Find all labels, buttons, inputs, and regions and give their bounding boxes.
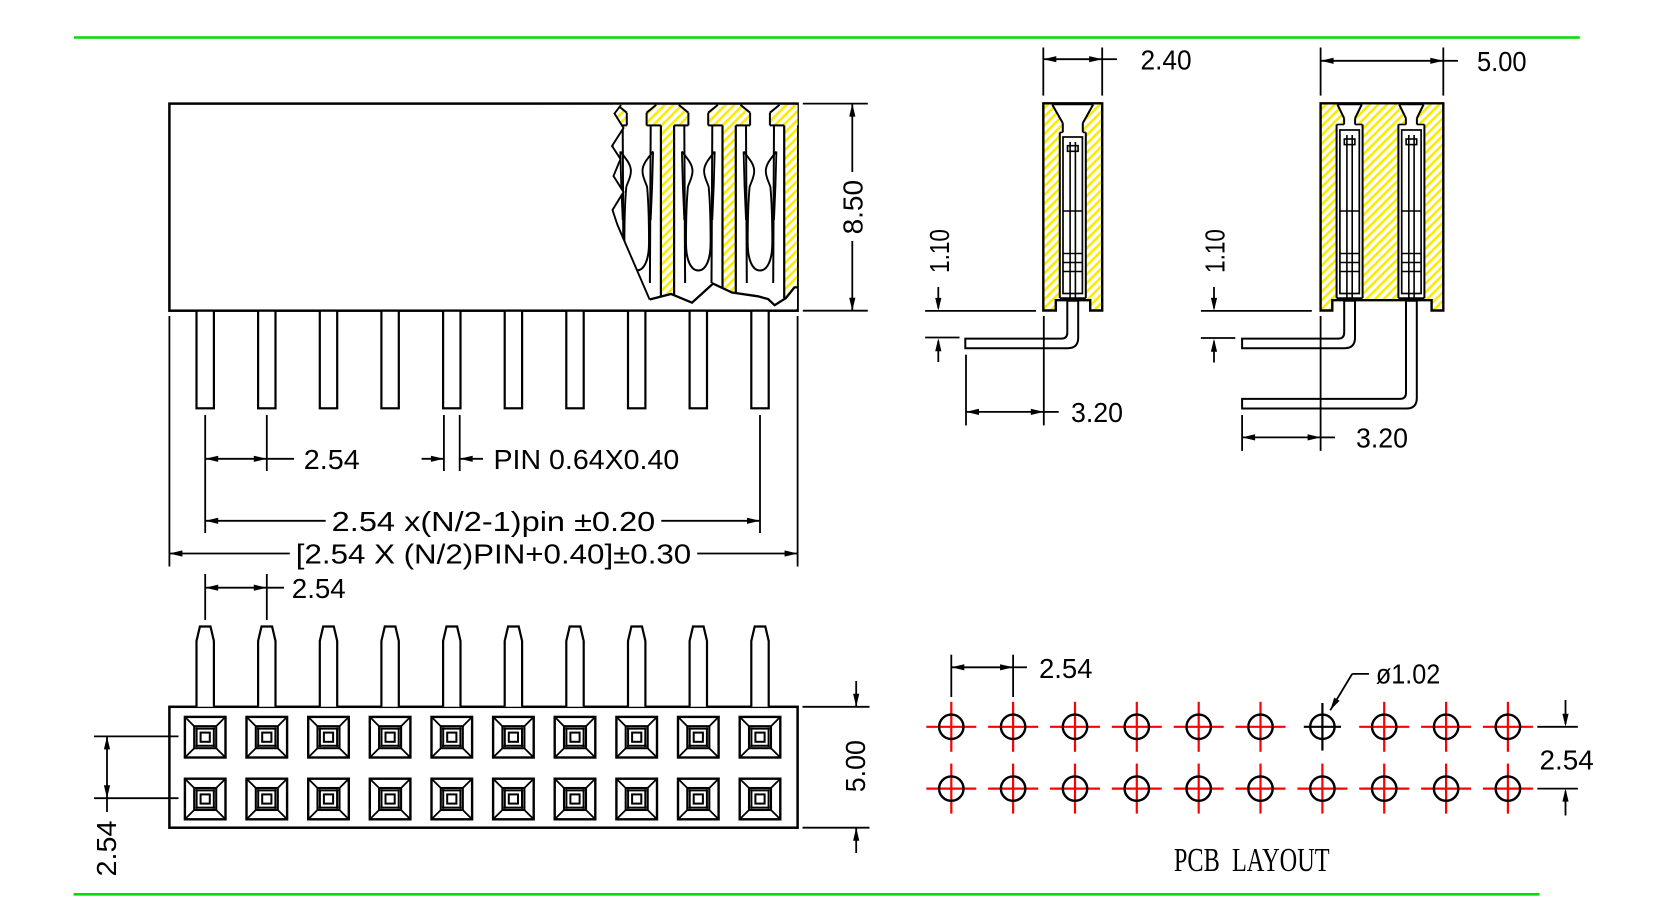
top view: socket hole row 1 col 3 [308, 717, 349, 758]
PCB layout: hole row 1 col 10 [1483, 702, 1533, 752]
side view B: right-angle pin row 1 [1242, 135, 1355, 348]
svg-text:2.54: 2.54 [304, 444, 360, 475]
top green border line [74, 36, 1580, 39]
svg-text:3.20: 3.20 [1071, 397, 1123, 428]
PCB layout: hole row 2 col 5 [1174, 764, 1224, 814]
dimension 3.20 (side A pin length) [966, 316, 1123, 428]
PCB layout: hole row 2 col 4 [1112, 764, 1162, 814]
front view: cut-away hatched section [613, 105, 798, 300]
svg-text:2.54: 2.54 [1540, 745, 1594, 776]
PCB layout: hole row 1 col 4 [1112, 702, 1162, 752]
PCB layout: hole row 1 col 2 [988, 702, 1038, 752]
svg-text:2.40: 2.40 [1141, 44, 1192, 75]
side view A: right-angle pin [965, 142, 1078, 348]
svg-text:5.00: 5.00 [840, 740, 871, 792]
front view: pin 7 [566, 311, 583, 409]
PCB layout: hole row 1 col 3 [1050, 702, 1100, 752]
top view: socket hole row 1 col 5 [432, 717, 473, 758]
dimension 1.10 (side A standoff) [924, 229, 1036, 362]
front view: cut-away bottom break edge [650, 284, 797, 309]
PCB layout: hole row 2 col 9 [1421, 764, 1471, 814]
front view: pin 10 [751, 311, 768, 409]
svg-text:ø1.02: ø1.02 [1376, 659, 1440, 690]
top view: pin 1 (vertical) [197, 627, 214, 707]
PCB layout: hole row 1 col 7 [1304, 703, 1341, 751]
top view: connector body [169, 707, 797, 828]
top view: pin 6 (vertical) [505, 627, 522, 707]
PCB layout: hole row 2 col 1 [926, 764, 976, 814]
top view: pin 2 (vertical) [258, 627, 275, 707]
dimension 2.54 (PCB hole pitch) [951, 653, 1092, 697]
dimension [2.54 X (N/2)PIN+0.40]±0.30 (overall length) [169, 316, 797, 570]
top view: socket hole row 2 col 8 [616, 779, 657, 820]
front view: pin 8 [628, 311, 645, 409]
top view: pin 10 (vertical) [751, 627, 768, 707]
svg-text:1.10: 1.10 [1200, 229, 1231, 273]
dimension 2.40 (side A width) [1043, 44, 1191, 95]
front view: pin 9 [690, 311, 707, 409]
PCB layout: hole row 2 col 7 [1297, 764, 1347, 814]
front view: pin 5 [443, 311, 460, 409]
bottom green border line [74, 893, 1540, 896]
PCB layout: hole row 1 col 9 [1421, 702, 1471, 752]
top view: socket hole row 2 col 10 [740, 779, 781, 820]
dimension 2.54 (PCB row pitch, right) [1537, 700, 1593, 816]
side view A: hatched body section [1043, 103, 1102, 310]
top view: socket hole row 2 col 7 [555, 779, 596, 820]
svg-text:[2.54 X (N/2)PIN+0.40]±0.30: [2.54 X (N/2)PIN+0.40]±0.30 [296, 539, 691, 570]
dimension 5.00 (side B width) [1321, 46, 1527, 96]
dimension PIN 0.64X0.40 (pin size) [422, 415, 680, 475]
front view: socket cavities and contacts [613, 125, 785, 298]
top view: pin 3 (vertical) [320, 627, 337, 707]
top view: pin 7 (vertical) [566, 627, 583, 707]
side view B: right-angle pin row 2 [1242, 135, 1417, 409]
svg-text:5.00: 5.00 [1477, 46, 1527, 77]
dimension 1.10 (side B standoff) [1200, 229, 1312, 363]
svg-text:PCB LAYOUT: PCB LAYOUT [1174, 842, 1330, 879]
front view: pin 4 [381, 311, 398, 409]
front view: socket entry funnels [617, 105, 779, 127]
top view: socket hole row 2 col 6 [493, 779, 534, 820]
dimension 2.54 x(N/2-1)pin ±0.20 (pin row span) [205, 415, 760, 537]
dimension 8.50 (body height) [803, 104, 869, 311]
svg-text:PIN 0.64X0.40: PIN 0.64X0.40 [494, 444, 680, 475]
dimension 2.54 (top view pin pitch) [205, 573, 345, 620]
side view B: hatched body section [1321, 103, 1444, 310]
svg-text:8.50: 8.50 [838, 180, 869, 234]
top view: socket hole row 2 col 5 [432, 779, 473, 820]
PCB layout: hole row 2 col 3 [1050, 764, 1100, 814]
top view: socket hole row 2 col 9 [678, 779, 719, 820]
PCB layout: hole row 2 col 10 [1483, 764, 1533, 814]
dimension 2.54 (front pin pitch) [205, 415, 359, 533]
top view: pin 4 (vertical) [381, 627, 398, 707]
top view: socket hole row 1 col 4 [370, 717, 411, 758]
top view: socket hole row 1 col 7 [555, 717, 596, 758]
top view: pin 8 (vertical) [628, 627, 645, 707]
front view: connector body [169, 104, 797, 311]
front view: cut-away left break line [300, 105, 650, 309]
dimension 3.20 (side B pin length) [1242, 316, 1408, 454]
top view: socket hole row 2 col 3 [308, 779, 349, 820]
dimension 2.54 (top view row pitch, left) [91, 736, 178, 876]
front view: pin 1 [197, 311, 214, 409]
svg-text:2.54: 2.54 [292, 573, 346, 604]
front view: pin 2 [258, 311, 275, 409]
PCB layout: hole row 2 col 8 [1359, 764, 1409, 814]
top view: socket hole row 1 col 9 [678, 717, 719, 758]
top view: socket hole row 2 col 1 [185, 779, 226, 820]
PCB layout: hole row 1 col 6 [1236, 702, 1286, 752]
svg-text:2.54: 2.54 [91, 821, 122, 877]
svg-text:2.54: 2.54 [1039, 653, 1093, 684]
front view: pin 6 [505, 311, 522, 409]
PCB layout: hole row 1 col 8 [1359, 702, 1409, 752]
front view: pin 3 [320, 311, 337, 409]
top view: socket hole row 1 col 2 [247, 717, 288, 758]
top view: socket hole row 1 col 8 [616, 717, 657, 758]
top view: pin 5 (vertical) [443, 627, 460, 707]
svg-text:3.20: 3.20 [1356, 423, 1408, 454]
PCB layout: hole row 1 col 1 [926, 702, 976, 752]
top view: socket hole row 2 col 2 [247, 779, 288, 820]
dimension 5.00 (top view body width, right) [803, 681, 872, 853]
top view: pin 9 (vertical) [690, 627, 707, 707]
top view: socket hole row 1 col 10 [740, 717, 781, 758]
top view: socket hole row 1 col 6 [493, 717, 534, 758]
leader ø1.02 (hole diameter) [1330, 659, 1440, 711]
svg-text:2.54 x(N/2-1)pin ±0.20: 2.54 x(N/2-1)pin ±0.20 [332, 506, 656, 537]
PCB layout: hole row 2 col 2 [988, 764, 1038, 814]
PCB layout: hole row 1 col 5 [1174, 702, 1224, 752]
svg-text:1.10: 1.10 [924, 229, 955, 273]
PCB layout: hole row 2 col 6 [1236, 764, 1286, 814]
top view: socket hole row 1 col 1 [185, 717, 226, 758]
top view: socket hole row 2 col 4 [370, 779, 411, 820]
